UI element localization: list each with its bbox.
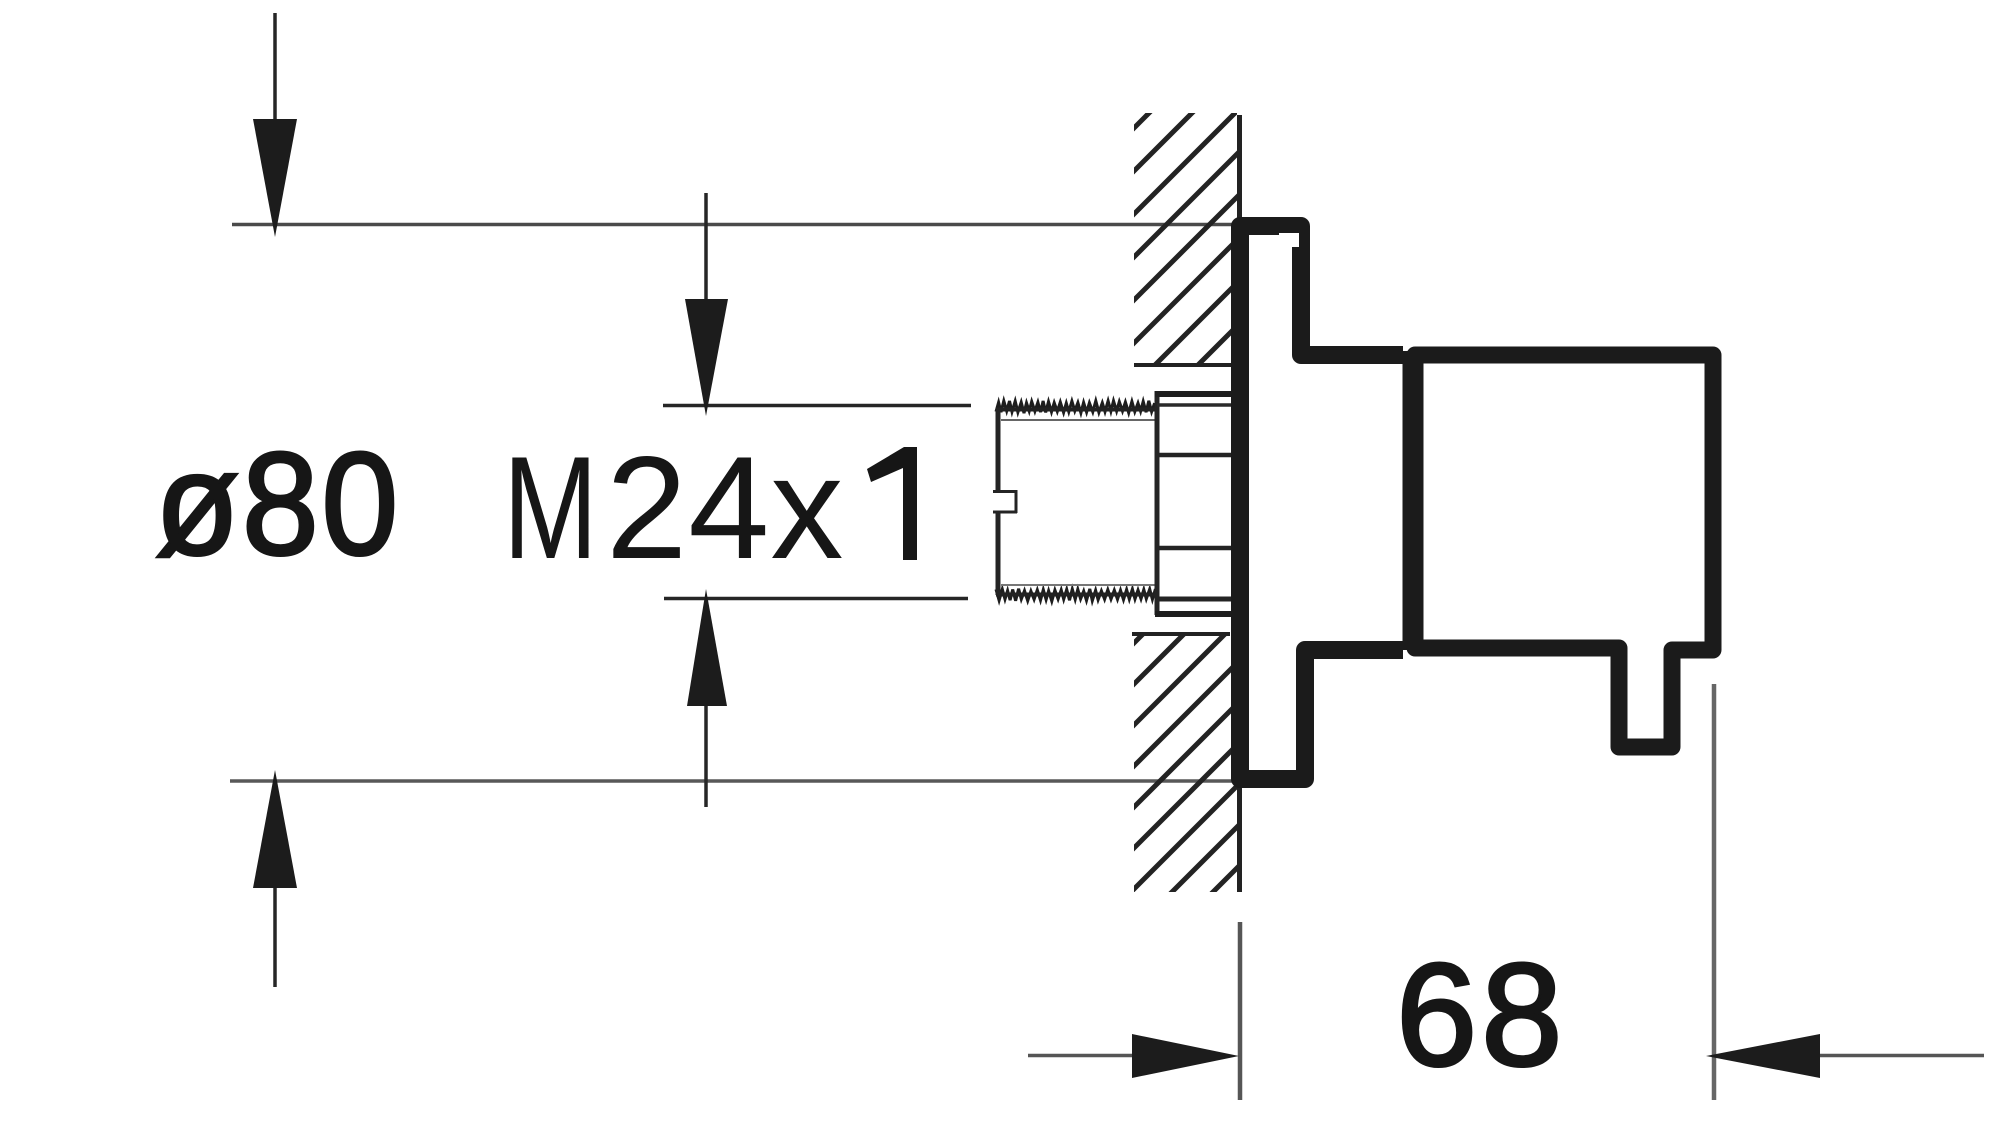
svg-text:24x: 24x: [606, 426, 844, 589]
svg-text:M: M: [503, 425, 598, 589]
svg-text:68: 68: [1396, 933, 1566, 1096]
svg-text:ø80: ø80: [155, 422, 401, 586]
